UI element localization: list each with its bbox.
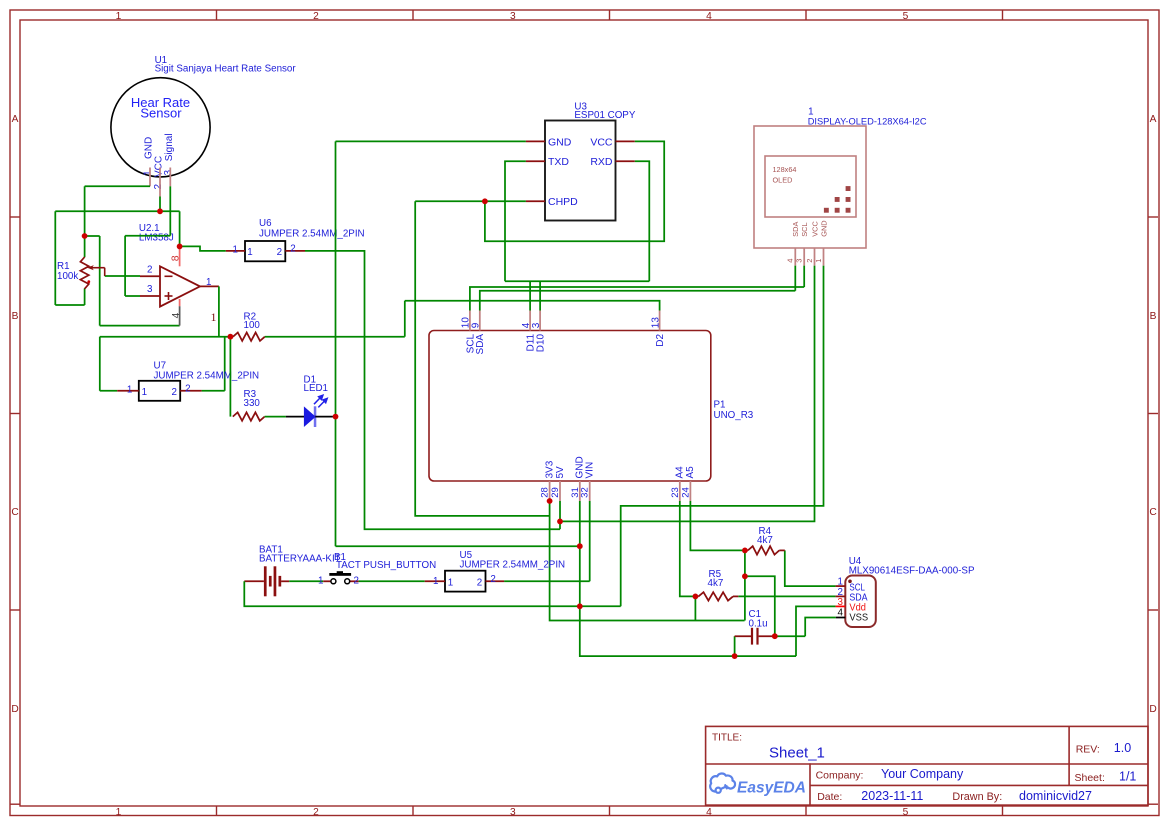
- svg-text:GND: GND: [819, 220, 828, 236]
- junction: [557, 519, 563, 525]
- svg-text:2: 2: [354, 575, 359, 586]
- svg-text:23: 23: [670, 487, 681, 498]
- svg-text:4k7: 4k7: [757, 535, 773, 546]
- svg-text:4: 4: [171, 312, 182, 318]
- wire pin8 node to U6 pin1: [180, 246, 226, 251]
- resistor R3 330: [233, 412, 265, 420]
- wire VSS to C1 node: [805, 618, 836, 637]
- svg-text:1: 1: [143, 170, 154, 176]
- wire riser to op-amp pin4: [99, 236, 101, 326]
- svg-text:29: 29: [550, 487, 561, 498]
- svg-text:100: 100: [244, 320, 261, 331]
- resistor R5 4k7: [698, 592, 733, 600]
- resistor R4 4k7: [748, 546, 779, 554]
- junction: [157, 208, 163, 214]
- svg-text:5V: 5V: [555, 466, 566, 479]
- svg-text:100k: 100k: [57, 271, 78, 282]
- svg-text:VCC: VCC: [590, 136, 613, 148]
- svg-text:Your Company: Your Company: [881, 767, 964, 781]
- svg-text:1: 1: [116, 11, 122, 22]
- sensor pin 2 VCC stub: [159, 168, 161, 197]
- display pin stubs: [794, 248, 796, 266]
- junction: [577, 543, 583, 549]
- wire OLED GND loop: [621, 266, 824, 607]
- svg-text:13: 13: [650, 317, 661, 329]
- svg-text:9: 9: [471, 322, 482, 328]
- svg-text:A4: A4: [675, 466, 686, 479]
- wire Signal riser to pin3: [124, 236, 126, 296]
- svg-text:2: 2: [290, 243, 295, 254]
- wire OLED SCL drop: [803, 266, 805, 287]
- ESP pin VCC stub: [616, 140, 635, 142]
- push button B1: [323, 580, 330, 582]
- svg-text:8: 8: [169, 255, 181, 261]
- svg-text:Sheet_1: Sheet_1: [769, 745, 825, 762]
- battery BAT1 leads: [244, 580, 264, 582]
- svg-text:2: 2: [490, 574, 495, 585]
- wire battery negative rail: [244, 581, 620, 606]
- U6 pin 1 stub: [226, 250, 245, 252]
- jumper U6 body: [245, 241, 285, 261]
- wire GND rail: [580, 501, 796, 656]
- U4 pin stubs: [836, 585, 846, 587]
- svg-text:3: 3: [147, 284, 153, 295]
- wire R4 node down: [744, 550, 746, 620]
- svg-text:28: 28: [540, 487, 551, 498]
- wire to D11: [529, 281, 531, 310]
- junction: [693, 594, 699, 600]
- svg-text:B: B: [12, 311, 19, 322]
- svg-text:1: 1: [318, 575, 323, 586]
- U5 pin 2 stub: [486, 580, 505, 582]
- UNO top pin stubs: [469, 311, 471, 331]
- svg-text:1: 1: [211, 310, 217, 324]
- wire left rail vertical: [54, 211, 56, 305]
- op-amp U2.1 triangle: [160, 266, 200, 306]
- svg-text:2: 2: [147, 265, 152, 276]
- svg-text:Signal: Signal: [164, 133, 175, 161]
- wire button to U5: [359, 580, 425, 582]
- junction: [577, 603, 583, 609]
- jumper U7 body: [139, 381, 180, 401]
- wire C1 left down: [734, 636, 736, 656]
- wire CHPD to 3V3: [415, 201, 549, 516]
- svg-text:3: 3: [510, 807, 516, 818]
- wire VCC rail: [55, 210, 179, 212]
- wire U7 pin1 row: [100, 390, 117, 392]
- svg-text:BATTERYAAA-KIT: BATTERYAAA-KIT: [259, 554, 341, 565]
- svg-text:2: 2: [313, 11, 319, 22]
- U4 pin1 marker dot: [848, 580, 852, 584]
- wire node to pin4 riser: [85, 235, 100, 237]
- svg-text:5: 5: [903, 11, 909, 22]
- wire R3 to LED: [265, 416, 286, 418]
- junction: [547, 498, 553, 504]
- junction: [177, 244, 183, 250]
- junction: [482, 198, 488, 204]
- svg-text:4: 4: [706, 11, 712, 22]
- svg-text:1: 1: [127, 384, 132, 395]
- EasyEDA logo: [710, 773, 735, 792]
- svg-text:1: 1: [142, 387, 147, 398]
- svg-text:LM358J: LM358J: [139, 233, 174, 244]
- svg-text:CHPD: CHPD: [548, 196, 578, 208]
- svg-text:1: 1: [433, 576, 438, 587]
- svg-text:Sheet:: Sheet:: [1075, 772, 1105, 784]
- wire 3V3 rail: [550, 501, 745, 621]
- svg-text:ESP01 COPY: ESP01 COPY: [574, 110, 635, 121]
- title block: [706, 726, 1148, 805]
- svg-text:UNO_R3: UNO_R3: [714, 410, 754, 421]
- op-amp pin 8 stub: [179, 246, 181, 266]
- svg-text:LED1: LED1: [304, 383, 329, 394]
- battery BAT1 plates: [264, 566, 281, 596]
- U5 pin 1 stub: [425, 580, 445, 582]
- wire CHPD row: [415, 200, 526, 202]
- svg-text:3V3: 3V3: [544, 460, 555, 478]
- wire R4 to U4 SCL: [785, 550, 836, 586]
- wire C1 right row: [775, 635, 805, 637]
- svg-text:VIN: VIN: [585, 462, 596, 479]
- ESP pin RXD stub: [616, 160, 635, 162]
- sensor U4 body: [845, 576, 876, 628]
- op-amp pin 4 stub: [179, 299, 181, 306]
- junction: [333, 414, 339, 420]
- wire battery to button: [289, 580, 323, 582]
- svg-text:2023-11-11: 2023-11-11: [861, 789, 923, 803]
- LED D1 symbol: [314, 406, 317, 427]
- svg-text:4k7: 4k7: [708, 578, 724, 589]
- svg-text:Drawn By:: Drawn By:: [952, 791, 1002, 803]
- junction: [82, 233, 88, 239]
- ESP pin TXD stub: [526, 160, 545, 162]
- svg-text:EasyEDA: EasyEDA: [737, 780, 806, 797]
- wire sensor VCC drop: [159, 197, 161, 212]
- svg-text:TACT PUSH_BUTTON: TACT PUSH_BUTTON: [336, 560, 436, 571]
- svg-text:JUMPER 2.54MM_2PIN: JUMPER 2.54MM_2PIN: [259, 229, 365, 240]
- svg-text:128x64: 128x64: [773, 165, 797, 174]
- svg-text:Company:: Company:: [816, 770, 864, 782]
- svg-text:SDA: SDA: [791, 222, 800, 237]
- svg-text:4: 4: [786, 259, 795, 263]
- svg-text:TXD: TXD: [548, 156, 569, 168]
- svg-text:D: D: [1149, 704, 1156, 715]
- svg-text:Date:: Date:: [817, 791, 842, 803]
- svg-text:1.0: 1.0: [1114, 741, 1131, 755]
- svg-text:RXD: RXD: [590, 156, 613, 168]
- wire A4 to R5: [680, 501, 696, 596]
- svg-text:2: 2: [477, 578, 482, 589]
- wire R5 node to 3V3 rail: [694, 596, 696, 620]
- wire 5V drop: [559, 501, 561, 529]
- wire down to U7 pin2: [224, 337, 226, 391]
- svg-text:SCL: SCL: [800, 222, 809, 236]
- wire U5 pin2 to VIN: [504, 580, 590, 582]
- svg-text:SDA: SDA: [475, 334, 486, 355]
- wire ESP GND descender: [335, 141, 337, 546]
- svg-text:A5: A5: [685, 466, 696, 479]
- svg-text:2: 2: [805, 259, 814, 263]
- svg-text:OLED: OLED: [773, 175, 793, 184]
- svg-text:32: 32: [580, 487, 591, 498]
- svg-text:5: 5: [903, 807, 909, 818]
- U7 pin 1 stub: [117, 390, 139, 392]
- svg-text:4: 4: [706, 807, 712, 818]
- header P1 UNO_R3 body: [429, 331, 711, 482]
- wire op-amp output down: [218, 286, 220, 336]
- junction: [742, 548, 748, 554]
- sensor pin 1 GND stub: [149, 168, 151, 187]
- wire SDA bus: [480, 291, 796, 311]
- svg-text:U6: U6: [259, 218, 272, 229]
- svg-text:1/1: 1/1: [1119, 770, 1136, 784]
- op-amp pin 2 stub: [140, 275, 160, 277]
- svg-text:2: 2: [185, 383, 190, 394]
- wire pot top lead: [84, 236, 86, 257]
- wire sensor GND left: [85, 185, 150, 187]
- wire pot bottom to left rail: [55, 304, 84, 306]
- LED D1 lead (black): [286, 416, 336, 418]
- svg-text:GND: GND: [144, 137, 155, 159]
- svg-text:JUMPER 2.54MM_2PIN: JUMPER 2.54MM_2PIN: [460, 560, 566, 571]
- svg-text:A: A: [12, 114, 19, 125]
- svg-text:D: D: [11, 704, 18, 715]
- svg-text:2: 2: [153, 184, 164, 190]
- ESP pin CHPD stub: [526, 200, 545, 202]
- resistor R1 100k potentiometer: [80, 257, 88, 289]
- svg-text:DISPLAY-OLED-128X64-I2C: DISPLAY-OLED-128X64-I2C: [808, 116, 927, 126]
- svg-text:3: 3: [531, 322, 542, 328]
- display pixel squares: [824, 186, 851, 213]
- sensor pin 3 Signal stub: [169, 168, 171, 187]
- wire D2 row: [405, 301, 660, 311]
- wire U6 pin2 long run: [305, 251, 560, 529]
- display inner screen: [765, 156, 856, 217]
- wire riser R2 to D2 row: [404, 301, 406, 337]
- wire op-amp pin4 row: [100, 325, 180, 327]
- svg-text:B: B: [1150, 311, 1157, 322]
- jumper U5 body: [445, 571, 486, 592]
- svg-text:P1: P1: [714, 400, 726, 411]
- wire Signal horizontal: [125, 235, 170, 237]
- svg-text:REV:: REV:: [1076, 744, 1100, 756]
- U6 pin 2 stub: [285, 250, 305, 252]
- wire feedback row: [100, 336, 231, 338]
- svg-text:C: C: [11, 507, 18, 518]
- wire VIN drop: [589, 501, 591, 581]
- wire Vdd to GND rail: [796, 606, 836, 656]
- wire GND row to UNO GND: [336, 545, 580, 547]
- wire TXD down: [505, 161, 526, 281]
- wire down to pot node: [84, 186, 86, 236]
- ESP pin GND stub: [526, 140, 545, 142]
- LED D1 arrows: [314, 395, 327, 407]
- svg-text:2: 2: [313, 807, 319, 818]
- resistor R2 100: [233, 333, 265, 341]
- svg-text:C: C: [1149, 507, 1156, 518]
- svg-text:4: 4: [838, 608, 844, 619]
- wire R2 right to D2 riser: [265, 336, 405, 338]
- wire RXD down: [635, 161, 650, 281]
- svg-text:3: 3: [510, 11, 516, 22]
- svg-text:Sensor: Sensor: [140, 105, 182, 120]
- U7 pin 2 stub: [180, 390, 201, 392]
- wire pot bottom lead: [84, 289, 86, 306]
- svg-text:1: 1: [206, 277, 211, 288]
- sensor U1 circle: [111, 78, 210, 177]
- wire to op-amp pin8: [179, 211, 181, 246]
- wire ESP GND row: [336, 140, 526, 142]
- wire TXD-RXD row: [505, 280, 649, 282]
- UNO bottom pin stubs: [549, 481, 551, 501]
- wire pot wiper to op-amp pin2: [105, 275, 140, 277]
- junction: [742, 573, 748, 579]
- wire OLED VCC to 5V: [560, 266, 815, 522]
- svg-text:1: 1: [233, 245, 238, 256]
- display module outer body: [754, 126, 866, 248]
- svg-text:24: 24: [680, 487, 691, 498]
- wire down to U7 pin1: [99, 337, 101, 391]
- svg-text:A: A: [1150, 114, 1157, 125]
- wire ESP VCC loop to CHPD node: [485, 141, 664, 241]
- IC U3 ESP01 body: [545, 121, 616, 221]
- svg-text:Sigit Sanjaya Heart Rate Senso: Sigit Sanjaya Heart Rate Sensor: [155, 63, 297, 74]
- wire node to C1 right: [745, 576, 775, 636]
- svg-text:3: 3: [838, 597, 844, 608]
- junction: [732, 653, 738, 659]
- svg-text:1: 1: [116, 807, 122, 818]
- wire to D10: [539, 281, 541, 310]
- svg-text:VCC: VCC: [810, 221, 819, 237]
- wire SCL bus: [470, 287, 804, 311]
- wire OLED SDA drop: [794, 266, 796, 291]
- svg-text:2: 2: [171, 387, 176, 398]
- op-amp pin 1 output stub: [200, 285, 219, 287]
- capacitor C1 0.1u: [735, 635, 752, 637]
- junction: [228, 334, 234, 340]
- svg-text:D2: D2: [655, 333, 666, 346]
- wire U7 pin2 row: [202, 390, 225, 392]
- wire to op-amp pin3: [125, 295, 140, 297]
- svg-text:3: 3: [163, 170, 174, 176]
- svg-text:2: 2: [277, 247, 282, 258]
- svg-text:1: 1: [448, 578, 453, 589]
- svg-text:VSS: VSS: [849, 613, 868, 624]
- svg-text:1: 1: [247, 247, 252, 258]
- op-amp pin 3 stub: [140, 295, 160, 297]
- svg-text:330: 330: [244, 398, 261, 409]
- junction: [772, 633, 778, 639]
- svg-text:TITLE:: TITLE:: [712, 733, 742, 744]
- svg-text:JUMPER 2.54MM_2PIN: JUMPER 2.54MM_2PIN: [154, 371, 260, 382]
- svg-text:dominicvid27: dominicvid27: [1019, 789, 1092, 803]
- wire A5 to R4: [690, 501, 745, 550]
- wire R5 to U4 SDA: [738, 595, 835, 597]
- svg-text:D10: D10: [536, 333, 547, 352]
- wire Signal drop: [169, 186, 171, 235]
- wire down to R3: [229, 337, 231, 417]
- LED D1 triangle: [304, 406, 316, 427]
- svg-text:GND: GND: [548, 136, 572, 148]
